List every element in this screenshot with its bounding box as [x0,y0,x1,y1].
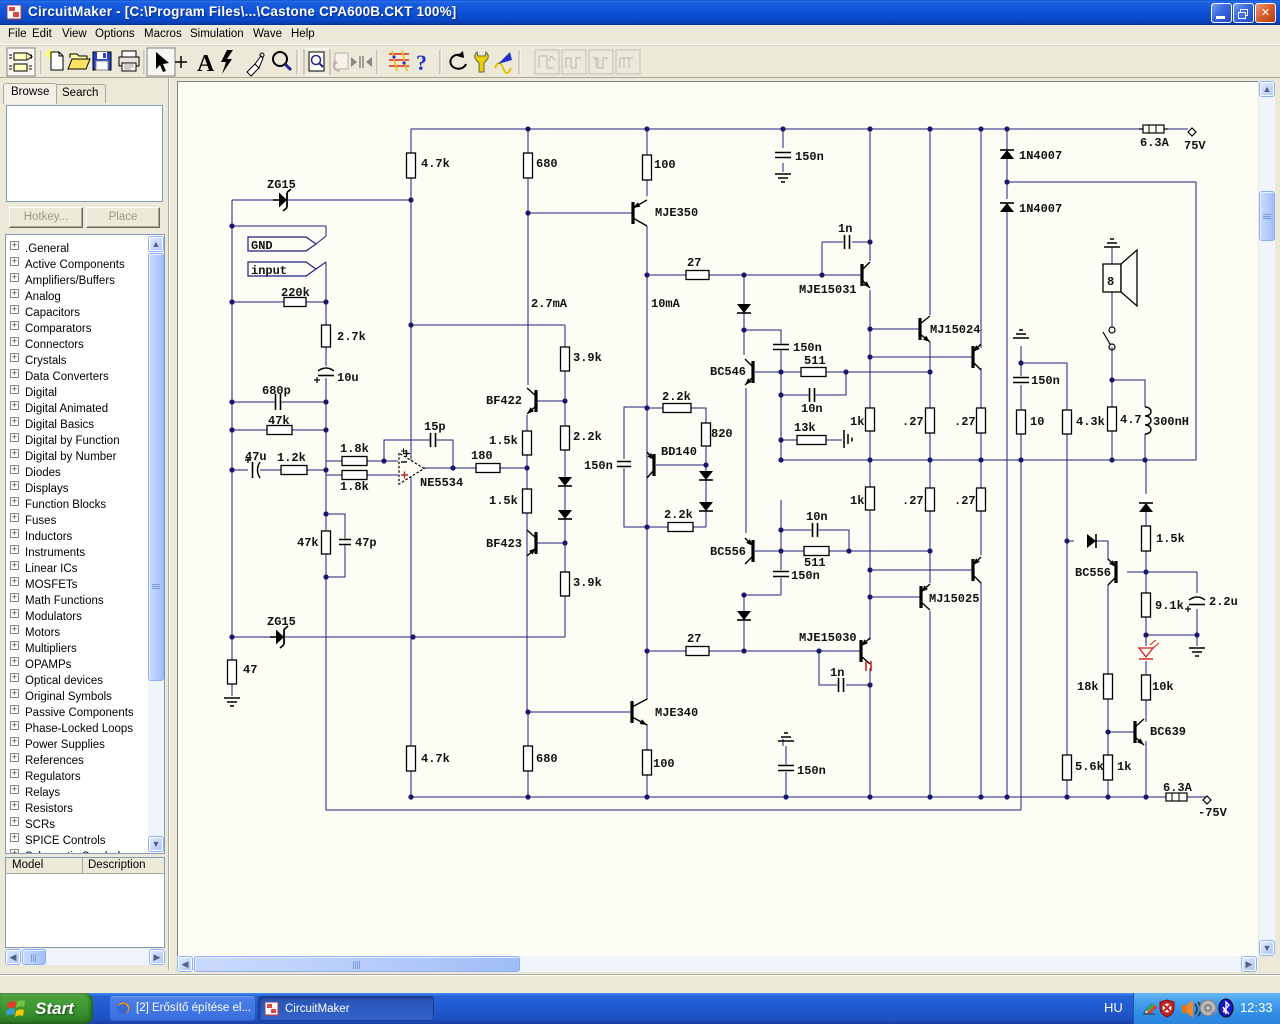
wire 47 to ground [231,684,233,696]
junction [1105,729,1110,734]
icon print [119,51,139,71]
resistor .27 R22 [926,408,935,433]
svg-text:.27: .27 [902,494,924,508]
transistor Q5 BC546 [745,359,753,385]
wire MJ15024 emitter to .27 [929,342,931,408]
wire to right vertical [1007,181,1196,183]
junction [927,457,932,462]
wire BC639 emitter to rail [1145,741,1147,797]
svg-text:ZG15: ZG15 [267,178,296,192]
wire 27 upper row [647,274,744,276]
junction [927,794,932,799]
capacitor 150n C12 [777,765,795,772]
wire GND flag top link [232,226,326,236]
icon magnifier [273,52,291,70]
svg-text:4.7k: 4.7k [421,157,450,171]
zener ZG15 D4 [270,626,288,648]
svg-text:47u: 47u [245,450,267,464]
window buttons [1211,3,1232,23]
diode D13 [737,611,751,620]
wire x=326 lower [325,470,327,577]
wire rail to -75V terminal [1187,796,1206,798]
svg-text:300nH: 300nH [1153,415,1189,429]
svg-text:NE5534: NE5534 [420,476,463,490]
wire 220k row [232,301,326,303]
icon open [68,54,90,69]
svg-text:6.3A: 6.3A [1140,136,1170,150]
svg-text:2.2k: 2.2k [664,508,693,522]
svg-text:150n: 150n [793,341,822,355]
svg-text:680p: 680p [262,384,291,398]
svg-text:680: 680 [536,157,558,171]
resistor 5.6k R34 [1063,755,1072,780]
resistor 4.3k R28 [1063,410,1072,434]
svg-text:1.8k: 1.8k [340,442,369,456]
wire BC556#2 collector to 18k [1107,585,1109,674]
wire BC546 collector stub [743,330,745,355]
resistor 511 R19 [801,368,826,377]
wire MJE15031 emitter column [869,290,871,408]
wire between 1N4007s [1006,158,1008,199]
icon new [45,49,63,70]
svg-text:220k: 220k [281,286,310,300]
svg-text:BF423: BF423 [486,537,522,551]
wire 13k left stub [781,439,797,441]
junction [450,465,455,470]
wire 1N4007#1 top [1006,129,1008,150]
resistor .27 R26 [977,488,986,511]
svg-text:MJ15025: MJ15025 [929,592,979,606]
svg-text:150n: 150n [797,764,826,778]
wire top rail to 75V terminal [1167,128,1188,130]
junction [846,548,851,553]
diode D9 [1087,534,1096,548]
wire diodes to 2.2k#3 row [705,511,707,527]
resistor 27 R42 [686,647,709,656]
svg-text:1.5k: 1.5k [489,494,518,508]
junction [780,126,785,131]
svg-text:2.2u: 2.2u [1209,595,1238,609]
ground x=1021 [1013,330,1029,338]
svg-text:6.3A: 6.3A [1163,781,1193,795]
resistor 820 R40 [702,423,711,446]
svg-text:1n: 1n [838,222,852,236]
transistor Q2 BF423 [527,530,536,556]
svg-text:BC556: BC556 [710,545,746,559]
wire driver#2 collector column [980,129,982,348]
junction [323,511,328,516]
junction [783,794,788,799]
junction [741,272,746,277]
wire x=565 mid column [564,371,566,572]
junction [229,427,234,432]
zener ZG15 D1 [273,189,291,211]
svg-text:5.6k: 5.6k [1075,760,1104,774]
wire 15p feedback loop [384,440,453,468]
wire 2.2u bottom stub [1196,609,1198,635]
resistor 220k R4 [284,298,306,307]
diode D11 [699,471,713,480]
wire 10k to BC639 collector [1145,700,1147,722]
svg-text:8: 8 [1107,275,1114,289]
junction [843,369,848,374]
junction [1142,457,1147,462]
svg-text:GND: GND [251,239,273,253]
resistor 1.2k R7 [281,466,307,475]
flag GND [248,236,326,251]
wire .27#3 to MJ15025 collector [929,511,931,583]
svg-text:MJ15024: MJ15024 [930,323,980,337]
wire driver#4 collector to rail [980,582,982,797]
junction [644,524,649,529]
wire 150n#2 top stub [780,551,782,570]
svg-text:?: ? [416,50,427,75]
wire 1.5k#3 to node [1145,551,1147,572]
capacitor 150n C10 [1012,377,1030,384]
wire x=870 lower [869,510,871,640]
wire left input rail x=232 [231,200,233,660]
junction [1143,632,1148,637]
wire node to 9.1k [1145,572,1147,593]
svg-text:BC556: BC556 [1075,566,1111,580]
status bar strip [0,974,1280,993]
junction [927,126,932,131]
transistor Q14 MJE15030 [861,638,870,664]
resistor .27 R23 [977,408,986,433]
junction [927,548,932,553]
wire bottom -75V rail [411,796,1166,798]
junction [229,399,234,404]
icon wrench [475,52,489,72]
junction [741,648,746,653]
capacitor 1n C7 [844,234,851,250]
resistor 3.9k R16 [561,572,570,596]
junction [525,126,530,131]
wire left VAS column x=411 (rail to bottom rail) [410,129,412,797]
transistor Q6 MJ15024 [920,316,930,342]
junction [1004,179,1009,184]
svg-text:47p: 47p [355,536,377,550]
diode D12 [699,502,713,511]
wire to ground#4 [1196,635,1198,646]
wire x=781 mid [780,372,782,460]
resistor 3.9k R14 [561,347,570,371]
ground 47 [224,698,240,706]
resistor 2.2k R15 [561,426,570,450]
wire MJ15025 emitter to rail [929,611,931,797]
horizontal scrollbar [177,956,1258,972]
junction [408,322,413,327]
toolbar button zoom-page [304,49,330,75]
junction [1004,794,1009,799]
resistor 1.5k R30 [1142,526,1151,551]
wire diode#h left stub [1067,540,1074,542]
resistor 9.1k R31 [1142,593,1151,617]
svg-text:10n: 10n [806,510,828,524]
resistor 2.2k R39 [663,404,691,413]
junction [229,634,234,639]
menu bar [0,25,1280,45]
diode D5 [737,304,751,313]
junction [524,465,529,470]
icon lightning [221,50,233,74]
wire 9.1k to LED node [1145,617,1147,646]
junction [867,567,872,572]
resistor 1.8k R8 [342,457,367,466]
junction [323,299,328,304]
resistor 4.7k R38 [407,746,416,771]
svg-text:15p: 15p [424,420,446,434]
capacitor 47u C4 [245,457,260,479]
junction [778,392,783,397]
wire to 3.9k#1 [564,325,566,347]
resistor 100 R36 [643,750,652,775]
junction [229,299,234,304]
junction [644,648,649,653]
svg-text:9.1k: 9.1k [1155,599,1184,613]
app icon [7,5,23,21]
junction [1018,457,1023,462]
junction [867,682,872,687]
transistor Q15 BC556 [745,538,753,564]
wire 47u to 1.2k [262,469,281,471]
svg-text:1.8k: 1.8k [340,480,369,494]
wire diode col lower [743,595,745,651]
svg-text:ZG15: ZG15 [267,615,296,629]
icon save [93,52,111,70]
toolbar button browse (pressed) [7,48,35,76]
junction [323,574,328,579]
wire MJE340 emitter to rail [646,724,648,797]
junction [381,458,386,463]
transistor Q11 BC639 [1135,719,1144,745]
wire diode to BC556#2 emitter [1096,541,1108,560]
svg-text:75V: 75V [1184,139,1206,153]
wire to 2.2u branch [1146,571,1197,573]
battery B1 [844,430,852,448]
svg-text:1k: 1k [1117,760,1131,774]
resistor 1.8k R9 [342,471,367,480]
capacitor 150n C1 [774,152,792,159]
wire 150n#5 left loop bottom [624,468,648,527]
junction [741,327,746,332]
wire gnd#5 stub [782,739,784,746]
wire MJ15024 base row [870,328,920,330]
resistor 100 R3 [643,155,652,180]
wire 4.7 to bus [1111,431,1113,460]
svg-text:100: 100 [654,158,676,172]
wire 1n#2 loop left [819,651,837,685]
transistor Q9 [973,557,981,583]
ground top 150n [775,174,791,182]
wire 10n#1 loop [781,372,846,395]
junction [778,369,783,374]
wire 1.2k to node [307,469,326,471]
inductor L1 300nH [1145,407,1151,434]
wire 2.2u top stub [1196,572,1198,593]
wire between diodes prep [705,480,707,502]
svg-text:4.7k: 4.7k [421,752,450,766]
capacitor 150n C13 [616,461,632,468]
svg-text:1N4007: 1N4007 [1019,149,1062,163]
capacitor 150n C8 [772,344,790,351]
wire 150n#3 to 10 [1020,385,1022,410]
wire 27#2 row right [709,650,861,652]
resistor 47 R17 [228,660,237,684]
junction [778,527,783,532]
LED D10 [1139,640,1159,659]
wire BC556#2 base stub [1127,571,1146,573]
junction [867,354,872,359]
windows flag [6,997,28,1019]
toolbar [0,45,1280,78]
capacitor 10n C9 [809,387,816,403]
probe marker red [866,661,871,671]
svg-text:MJE15031: MJE15031 [799,283,857,297]
resistor 4.7 R29 [1108,407,1117,431]
svg-text:input: input [251,264,287,278]
svg-text:511: 511 [804,556,826,570]
icon plus [175,56,187,68]
svg-text:MJE350: MJE350 [655,206,698,220]
junction [562,398,567,403]
wire 1k#3 to rail [1107,780,1109,797]
wire 47p loop [326,514,345,577]
wire BC556 base row [755,550,804,552]
junction [867,794,872,799]
wire 47u/1.2k row [232,469,326,471]
op-amp U1 NE5534 [399,450,424,484]
junction [229,223,234,228]
junction [867,457,872,462]
wire 511#1 row right [826,371,930,373]
svg-text:150n: 150n [1031,374,1060,388]
wire 10n#2 loop [781,530,849,551]
terminal 75V [1188,128,1196,136]
wire 150n#5 left loop top [624,407,648,459]
wire MJE15031 collector column [869,129,871,261]
junction [408,197,413,202]
wire 150n#2 row [744,594,781,596]
wire 300nH top link [1112,380,1145,407]
wire speaker to switch [1111,292,1113,327]
wire diode to 1.5k#3 [1145,503,1147,526]
svg-text:27: 27 [687,632,701,646]
wire 150n#4 to rail [785,772,787,797]
wire op-amp plus row [326,474,398,476]
wire BF423 base row [536,542,565,544]
capacitor 2.2u C11 [1185,595,1206,612]
resistor 1.5k R13 [523,489,532,513]
svg-text:180: 180 [471,449,493,463]
capacitor 680p C3 [275,393,282,411]
wire 27#2 row left [647,650,686,652]
wire 2.7mA row [411,324,565,326]
icon probe [247,53,264,76]
resistor 2.2k R41 [668,523,693,532]
wire MJ15024 collector column [929,129,931,315]
wire 150n#1 top stub [782,129,784,148]
wire speaker top [1111,247,1113,264]
icon digital probes (colorful) [389,51,409,71]
wire driver#2 emitter to .27 [980,368,982,408]
junction [1143,569,1148,574]
wire MJE340 base row [528,711,632,713]
ground speaker [1104,239,1120,247]
junction [978,126,983,131]
icon splitter [351,56,372,68]
transistor Q10 BC556 [1108,559,1116,585]
svg-text:2.7k: 2.7k [337,330,366,344]
svg-text:2.2k: 2.2k [573,430,602,444]
wire VAS column x=647 [646,226,648,700]
capacitor 10u C2 [314,366,335,383]
svg-text:1k: 1k [850,494,864,508]
resistor .27 R25 [926,488,935,511]
wire BC546/BC556 emitter column [745,388,747,533]
svg-text:1n: 1n [830,666,844,680]
svg-text:.27: .27 [954,415,976,429]
svg-text:100: 100 [653,757,675,771]
svg-text:27: 27 [687,256,701,270]
junction [644,794,649,799]
wire switch to 4.7 [1111,347,1113,407]
junction [867,326,872,331]
toolbar button arrow (pressed) [147,48,175,76]
wire LED node to gnd branch [1146,634,1197,636]
capacitor 1n C14 [838,677,845,693]
junction [1109,377,1114,382]
icon rotate [450,51,466,69]
wire 5.6k to rail [1066,780,1068,797]
wire input column x=326 upper [325,262,327,470]
junction [816,648,821,653]
wire gnd stub x=1021 [1020,346,1022,363]
wire BF423 emitter down [526,560,528,712]
wire .27 to bus to .27 [929,433,931,488]
resistor 10 R27 [1017,410,1026,434]
svg-text:BD140: BD140 [661,445,697,459]
wire 2.7k to 10u [325,347,327,366]
junction [562,540,567,545]
transistor Q4 MJE15031 [862,262,870,288]
svg-text:MJE15030: MJE15030 [799,631,857,645]
wire to 4.3k top [1021,363,1067,410]
wire BC639 base row [1108,731,1135,733]
svg-text:1.5k: 1.5k [489,434,518,448]
wire 10u to 680p row [325,380,327,402]
junction [1143,794,1148,799]
junction [778,437,783,442]
transistor Q3 MJE350 [633,200,647,226]
vertical scrollbar [1259,81,1275,956]
svg-text:.27: .27 [954,494,976,508]
junction [1064,794,1069,799]
junction [703,462,708,467]
wire BC546 collector link [744,330,781,372]
switch SW1 [1103,327,1115,350]
tray icons [1142,998,1234,1020]
svg-text:10u: 10u [337,371,359,385]
wire x=1021 to rail2 [1020,434,1022,810]
svg-text:4.7: 4.7 [1120,413,1142,427]
svg-text:1k: 1k [850,415,864,429]
svg-text:1.2k: 1.2k [277,451,306,465]
svg-text:13k: 13k [794,421,816,435]
svg-text:1.5k: 1.5k [1156,532,1185,546]
resistor 1k R21 [866,408,875,431]
wire 1n#1 left [822,241,843,243]
